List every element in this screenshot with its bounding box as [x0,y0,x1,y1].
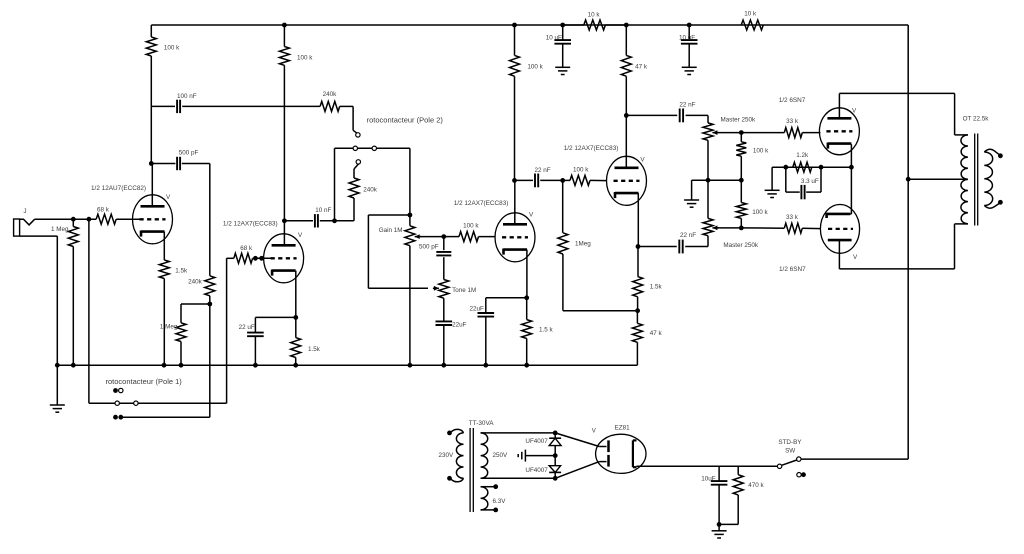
svg-text:10 k: 10 k [588,12,601,19]
svg-text:100 k: 100 k [753,148,769,155]
svg-text:10uF: 10uF [701,476,716,483]
svg-text:1.5k: 1.5k [308,346,321,353]
node V1 supply [282,23,287,28]
svg-text:10 nF: 10 nF [315,207,331,214]
resistor 470k bleeder [737,466,739,474]
svg-text:100 k: 100 k [297,55,313,62]
svg-text:1.5 k: 1.5 k [539,327,554,334]
svg-text:22 nF: 22 nF [535,167,551,174]
resistor 100k divider lower [740,180,742,202]
capacitor 10uF filter 2 [688,25,690,40]
capacitor 22nF PI in [515,179,534,181]
wire V1 plate feed [150,106,152,163]
wire pole1 row [88,219,90,403]
ground output bias [771,167,773,190]
wire divider ground [692,179,742,181]
transformer PT primary [456,433,463,478]
transformer OT secondary [984,152,992,206]
node bus 1Meg bias [179,363,184,368]
resistor 33k V5 grid [741,132,784,134]
tube V2 1/2 12AX7 [264,234,304,283]
wire B+ drop right [907,25,909,459]
capacitor 22nF PI out lower [638,246,677,248]
wire cathode bus [772,166,851,168]
transformer OT core [974,134,976,226]
wire B+ rail [151,24,908,26]
node speaker - [998,200,1003,205]
svg-text:22 nF: 22 nF [679,102,695,109]
capacitor 22uF V3 [486,297,527,299]
svg-text:47 k: 47 k [650,330,663,337]
contact pole2 b [353,146,357,150]
svg-text:1 Meg: 1 Meg [160,324,178,331]
svg-text:1.5k: 1.5k [175,268,188,275]
resistor 100k V4 grid [563,179,570,181]
svg-text:100 nF: 100 nF [177,93,197,100]
node cathode 1.2k left [783,165,788,170]
tube V5 1/2 6SN7 [819,108,859,155]
wire jack sleeve [20,235,58,237]
svg-text:100 k: 100 k [573,167,589,174]
resistor 47k PI tail [632,323,642,342]
resistor 68k grid V1 [96,214,116,224]
svg-text:22 uF: 22 uF [239,324,255,331]
node PT primary bottom [447,476,452,481]
capacitor 22nF PI out upper [626,114,677,116]
capacitor 10uF filter 1 [562,25,564,40]
svg-text:240k: 240k [323,91,338,98]
ground main [56,365,58,405]
svg-text:100 k: 100 k [752,209,768,216]
svg-text:SW: SW [785,448,795,455]
transformer PT heater winding [481,487,488,510]
wiper master lower [712,227,718,229]
wire input [35,218,96,220]
wiper gain [415,236,421,238]
svg-text:Master 250k: Master 250k [721,117,756,124]
resistor 47k V4 plate [625,25,627,55]
jack J input [14,219,20,236]
wire bright left riser [334,148,336,221]
potentiometer Tone 1M [439,280,449,299]
potentiometer Master lower [707,180,709,218]
svg-text:500 pF: 500 pF [419,244,439,251]
node input 2 [87,217,92,222]
svg-text:1/2 6SN7: 1/2 6SN7 [779,97,806,104]
wire V6 cathode lead [850,213,851,215]
tube EZ81 rectifier [596,434,646,473]
contact pole1 wiper [113,388,118,393]
node V3 supply [512,23,517,28]
wire V5 cathode lead [850,144,852,167]
node V2 grid a [253,256,258,261]
svg-text:1Meg: 1Meg [575,241,591,248]
node V1 plate [149,161,154,166]
svg-text:1.5k: 1.5k [650,284,663,291]
svg-text:10 k: 10 k [744,11,757,18]
resistor 100k V1 plate [150,25,152,37]
wire 500pF to 240k [209,164,211,276]
resistor 100k V3 grid [444,236,459,238]
svg-text:J: J [23,208,26,215]
wire rectifier out [637,465,778,467]
resistor 33k V6 grid [741,227,784,229]
svg-text:10 uF: 10 uF [679,35,695,42]
svg-text:V: V [166,194,171,201]
resistor 100k divider upper [740,133,742,142]
node bus V3 cathode [524,363,529,368]
node V5 cathode [849,165,854,170]
resistor 10k supply 1 [563,24,584,26]
node diode top [553,431,558,436]
node V4 cathode [636,244,641,249]
svg-text:3.3 uF: 3.3 uF [801,178,819,185]
svg-text:V: V [853,254,858,261]
wire HV top [481,432,556,434]
wire heater top [481,486,496,488]
node bus tone [441,363,446,368]
svg-text:1/2 6SN7: 1/2 6SN7 [779,266,806,273]
node V2 grid b [259,256,264,261]
contact pole1 b [134,401,138,405]
wire bright right riser [409,148,411,215]
wire V6 plate lead [838,240,840,269]
svg-text:22uF: 22uF [452,322,467,329]
wire V4 plate lead [625,115,627,167]
node PI grid [560,178,565,183]
node divider mid [739,178,744,183]
node bus 1Meg [71,363,76,368]
resistor 1.2k output bias [793,162,812,172]
svg-text:V: V [592,429,596,435]
node master common [706,178,711,183]
svg-text:47 k: 47 k [635,64,648,71]
resistor 10k supply 2 [741,20,763,30]
svg-text:Master 250k: Master 250k [723,242,758,249]
tube V3 1/2 12AX7 [495,213,535,262]
svg-text:240k: 240k [188,279,203,286]
svg-text:100 k: 100 k [527,64,543,71]
resistor 1.5k V1 cathode [163,232,165,260]
wire to pole2 contact [352,106,354,130]
wire V2 grid riser [226,258,228,403]
wire heater bottom [481,509,496,511]
resistor 1 Meg input [72,219,74,226]
svg-text:OT 22.5k: OT 22.5k [963,116,990,123]
wire OT primary top lead [954,93,956,134]
svg-text:1.2k: 1.2k [796,152,809,159]
node bus V1 cathode [162,363,167,368]
capacitor 500pF V1 [151,163,175,165]
node diode mid [553,453,558,458]
wire plate diag lower [555,462,599,479]
potentiometer Master upper [707,115,709,123]
contact pole2 d [356,160,360,164]
node cathode 1.2k right [819,165,824,170]
svg-text:6.3V: 6.3V [493,498,507,505]
node PI tail [635,308,640,313]
wire plate diag upper [555,433,599,447]
svg-text:10 uF: 10 uF [546,35,562,42]
svg-text:Tone 1M: Tone 1M [452,287,476,294]
resistor 240k bright [320,101,340,111]
node speaker + [998,153,1003,158]
wire OT center tap [908,178,968,180]
svg-text:Gain 1M: Gain 1M [379,227,403,234]
svg-text:1/2 12AX7(ECC83): 1/2 12AX7(ECC83) [564,145,619,152]
wire OT sec bottom lead [984,203,999,208]
node bus 22uF V3 [483,363,488,368]
switch STD-BY [777,464,781,468]
capacitor 500pF tone [443,237,445,251]
node V2 plate [282,218,287,223]
node pole1 link a [113,415,118,420]
svg-text:1/2 12AX7(ECC83): 1/2 12AX7(ECC83) [454,200,509,207]
resistor 1.5k PI tail [637,247,639,277]
contact pole1 a [115,401,119,405]
capacitor 22uF V2 [255,316,295,318]
resistor 1 Meg bias [181,303,210,305]
wiper master upper [712,132,718,134]
node input 1 [71,217,76,222]
node bus jack [55,363,60,368]
wiper tone [433,287,439,289]
svg-text:33 k: 33 k [786,118,799,125]
wire V3 plate lead [514,180,516,224]
capacitor 3.3uF bypass [785,167,787,192]
svg-text:TT-30VA: TT-30VA [469,420,494,427]
wire V4 cathode lead [637,193,639,246]
node master wiper lower [739,226,744,231]
svg-text:230V: 230V [439,452,455,459]
node filter cap 1 [560,23,565,28]
resistor 68k grid V2 [234,253,253,263]
ground diode mid [524,450,526,462]
node OT center tap [906,177,911,182]
svg-text:33 k: 33 k [786,214,799,221]
capacitor 100nF coupling [151,105,175,107]
wire pole1 link [121,416,210,418]
node bus V2 cathode [293,363,298,368]
resistor 240k feedback [205,276,215,296]
resistor 100k V2 plate [283,25,285,47]
node gain top [408,213,413,218]
wire tone feed [368,214,410,216]
wire V1 plate lead [151,164,153,207]
svg-text:68 k: 68 k [97,207,110,214]
svg-text:1/2 12AU7(ECC82): 1/2 12AU7(ECC82) [91,185,146,192]
tube V6 1/2 6SN7 [820,205,859,254]
capacitor 22uF tone [443,298,445,321]
svg-text:68 k: 68 k [240,245,253,252]
svg-text:22uF: 22uF [470,306,485,313]
svg-text:100 k: 100 k [164,45,180,52]
svg-text:V: V [640,157,645,164]
contact pole2 c [372,146,376,150]
diode UF4007 lower [554,456,556,466]
node V4 supply [624,23,629,28]
potentiometer Gain 1M [409,215,411,226]
svg-text:V: V [529,212,534,219]
node filter cap 2 [687,23,692,28]
node heater top [493,484,498,489]
ground reservoir [718,524,720,530]
ground filter cap 2 [682,66,697,68]
node heater bottom [493,508,498,513]
resistor 100k V3 plate [514,25,516,55]
node bright net [332,218,337,223]
node reservoir bottom [717,522,722,527]
wire OT sec top lead [984,149,999,154]
transformer PT HV winding [481,433,488,478]
svg-text:V: V [298,232,303,239]
svg-text:rotocontacteur (Pole 2): rotocontacteur (Pole 2) [367,116,444,125]
node diode bottom [553,476,558,481]
resistor 1Meg V4 gridleak [562,180,564,232]
node bus 22uF V2 [253,363,258,368]
resistor 1.5k V2 cathode [295,271,297,338]
svg-text:500 pF: 500 pF [179,150,199,157]
capacitor 10nF V2 out [284,220,313,222]
svg-text:1/2 12AX7(ECC83): 1/2 12AX7(ECC83) [223,220,278,227]
diode UF4007 upper [554,433,556,438]
node pole1 link b [118,415,123,420]
svg-text:rotocontacteur (Pole 1): rotocontacteur (Pole 1) [106,377,183,386]
node gain wiper [441,234,446,239]
svg-text:1 Meg: 1 Meg [51,226,69,233]
wire HV bottom [481,477,556,479]
node V2 cathode [293,315,298,320]
contact standby unused [797,473,801,477]
wire V2 plate lead [283,221,285,245]
ground divider [684,199,699,201]
wire OT primary bottom lead [955,223,968,225]
wire standby to B+ [801,458,908,460]
svg-text:STD-BY: STD-BY [778,439,802,446]
svg-text:UF4007: UF4007 [525,467,548,474]
node master wiper upper [739,130,744,135]
svg-text:22 nF: 22 nF [680,232,696,239]
node PT primary top [447,431,452,436]
node 240k 1Meg [207,302,212,307]
tube V4 1/2 12AX7 [607,156,647,205]
transformer PT core [469,428,471,512]
transformer OT primary [961,135,968,224]
resistor 1.5k V3 cathode [526,250,528,298]
svg-text:100 k: 100 k [463,223,479,230]
node V3 cathode [524,295,529,300]
contact pole2 a [356,133,360,137]
svg-text:470 k: 470 k [748,482,764,489]
svg-text:240k: 240k [363,187,378,194]
node V3 plate [512,178,517,183]
svg-text:V: V [852,108,857,115]
wire 240k down [209,296,211,417]
tube V1 1/2 12AU7 [133,195,173,244]
resistor 240k pole2 [354,164,358,169]
wire ground bus [57,364,637,366]
capacitor 10uF reservoir [718,466,720,481]
node bus gain [408,363,413,368]
svg-text:UF4007: UF4007 [525,438,548,445]
svg-text:EZ81: EZ81 [615,425,631,432]
node V4 plate [624,113,629,118]
svg-text:250V: 250V [493,452,509,459]
ground filter cap 1 [555,66,570,68]
wire 68k2 corner [227,257,234,259]
wire V5 plate lead [838,93,840,118]
